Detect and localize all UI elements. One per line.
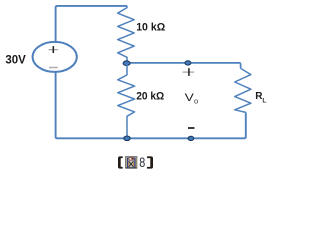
node 20k bottom: [124, 136, 130, 141]
svg-text:10 kΩ: 10 kΩ: [136, 22, 165, 34]
resistor R1 10k zigzag: [118, 6, 135, 62]
wire middle rail: [127, 63, 241, 69]
caption glyph box (CJK tu): [126, 157, 137, 169]
svg-text:o: o: [194, 97, 198, 106]
wire left-bottom and bottom rail: [56, 72, 246, 139]
node junction 10k/20k: [123, 61, 130, 66]
svg-text:8: 8: [139, 154, 145, 170]
node Vo- terminal: [188, 136, 194, 140]
svg-text:20 kΩ: 20 kΩ: [136, 91, 164, 103]
minus sign output: [188, 127, 195, 129]
caption bracket left: [118, 156, 123, 168]
wire top-left loop: [56, 6, 127, 42]
svg-text:30V: 30V: [5, 54, 26, 66]
voltage source V1: [33, 42, 77, 72]
minus sign of source: [49, 67, 58, 69]
plus sign output: [183, 68, 195, 76]
caption bracket right: [147, 156, 153, 168]
node Vo+ terminal: [185, 61, 191, 65]
plus sign of source: [49, 46, 58, 53]
resistor RL zigzag: [235, 68, 251, 112]
resistor R2 20k zigzag: [118, 63, 135, 138]
svg-text:L: L: [262, 98, 266, 105]
